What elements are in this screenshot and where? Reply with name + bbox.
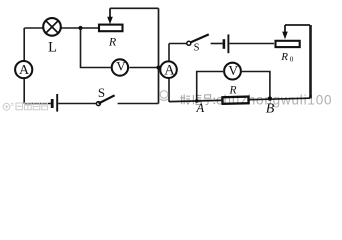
rheostat R wiper arrow [107,8,113,24]
voltmeter V1 (left circuit) [112,58,128,75]
svg-text:S: S [194,42,200,53]
wire right circuit top row [169,43,274,45]
wire right circuit ammeter branch top [168,44,170,62]
svg-text:0: 0 [290,56,294,64]
svg-text:A: A [164,62,175,78]
node dot voltmeter to right rail [156,65,160,69]
voltmeter V2 (right circuit) [224,63,241,80]
svg-text:S: S [98,85,105,100]
wire left circuit bottom [24,103,158,105]
svg-text:chuzhongwuli100: chuzhongwuli100 [216,93,332,108]
ammeter A1 (left circuit) [15,61,32,78]
battery B2 (right circuit) [224,34,229,53]
ammeter A2 (right circuit) [160,61,177,78]
wire left circuit top [24,27,98,29]
rheostat R0 [276,41,300,47]
svg-text:A: A [195,101,204,115]
svg-text:R: R [280,51,288,63]
wire right circuit ammeter branch bottom [168,78,170,102]
wire voltmeter loop (right circuit) [197,72,270,102]
battery B1 (left circuit) [52,94,57,112]
wire voltmeter branch [81,28,159,68]
resistor R (slide wire AB) [222,97,248,104]
watermark text CJK 微信号: [180,94,214,104]
svg-text:A: A [19,63,30,78]
watermark wechat icon [160,91,168,101]
switch S (right circuit) [187,34,209,45]
svg-text:L: L [48,40,57,56]
lamp L [43,18,61,36]
node A junction dot [195,99,199,103]
rheostat R0 wiper arrow [282,25,288,39]
switch S (left circuit) [96,95,114,105]
wire left circuit right rail [158,8,160,103]
watermark logo left [3,103,47,110]
svg-text:V: V [228,63,238,78]
wire R0 wiper to right rail [285,24,310,26]
rheostat R [99,25,123,32]
wire left circuit left rail [23,28,25,104]
svg-text:V: V [116,58,126,73]
wire right circuit right rail [309,25,312,98]
wire right circuit bottom [169,98,310,101]
node B junction dot [268,96,272,100]
svg-text:R: R [108,34,117,48]
label R0 [280,51,294,64]
node junction dot (top wire / voltmeter branch) [78,26,82,30]
wire wiper to right rail [110,7,159,9]
